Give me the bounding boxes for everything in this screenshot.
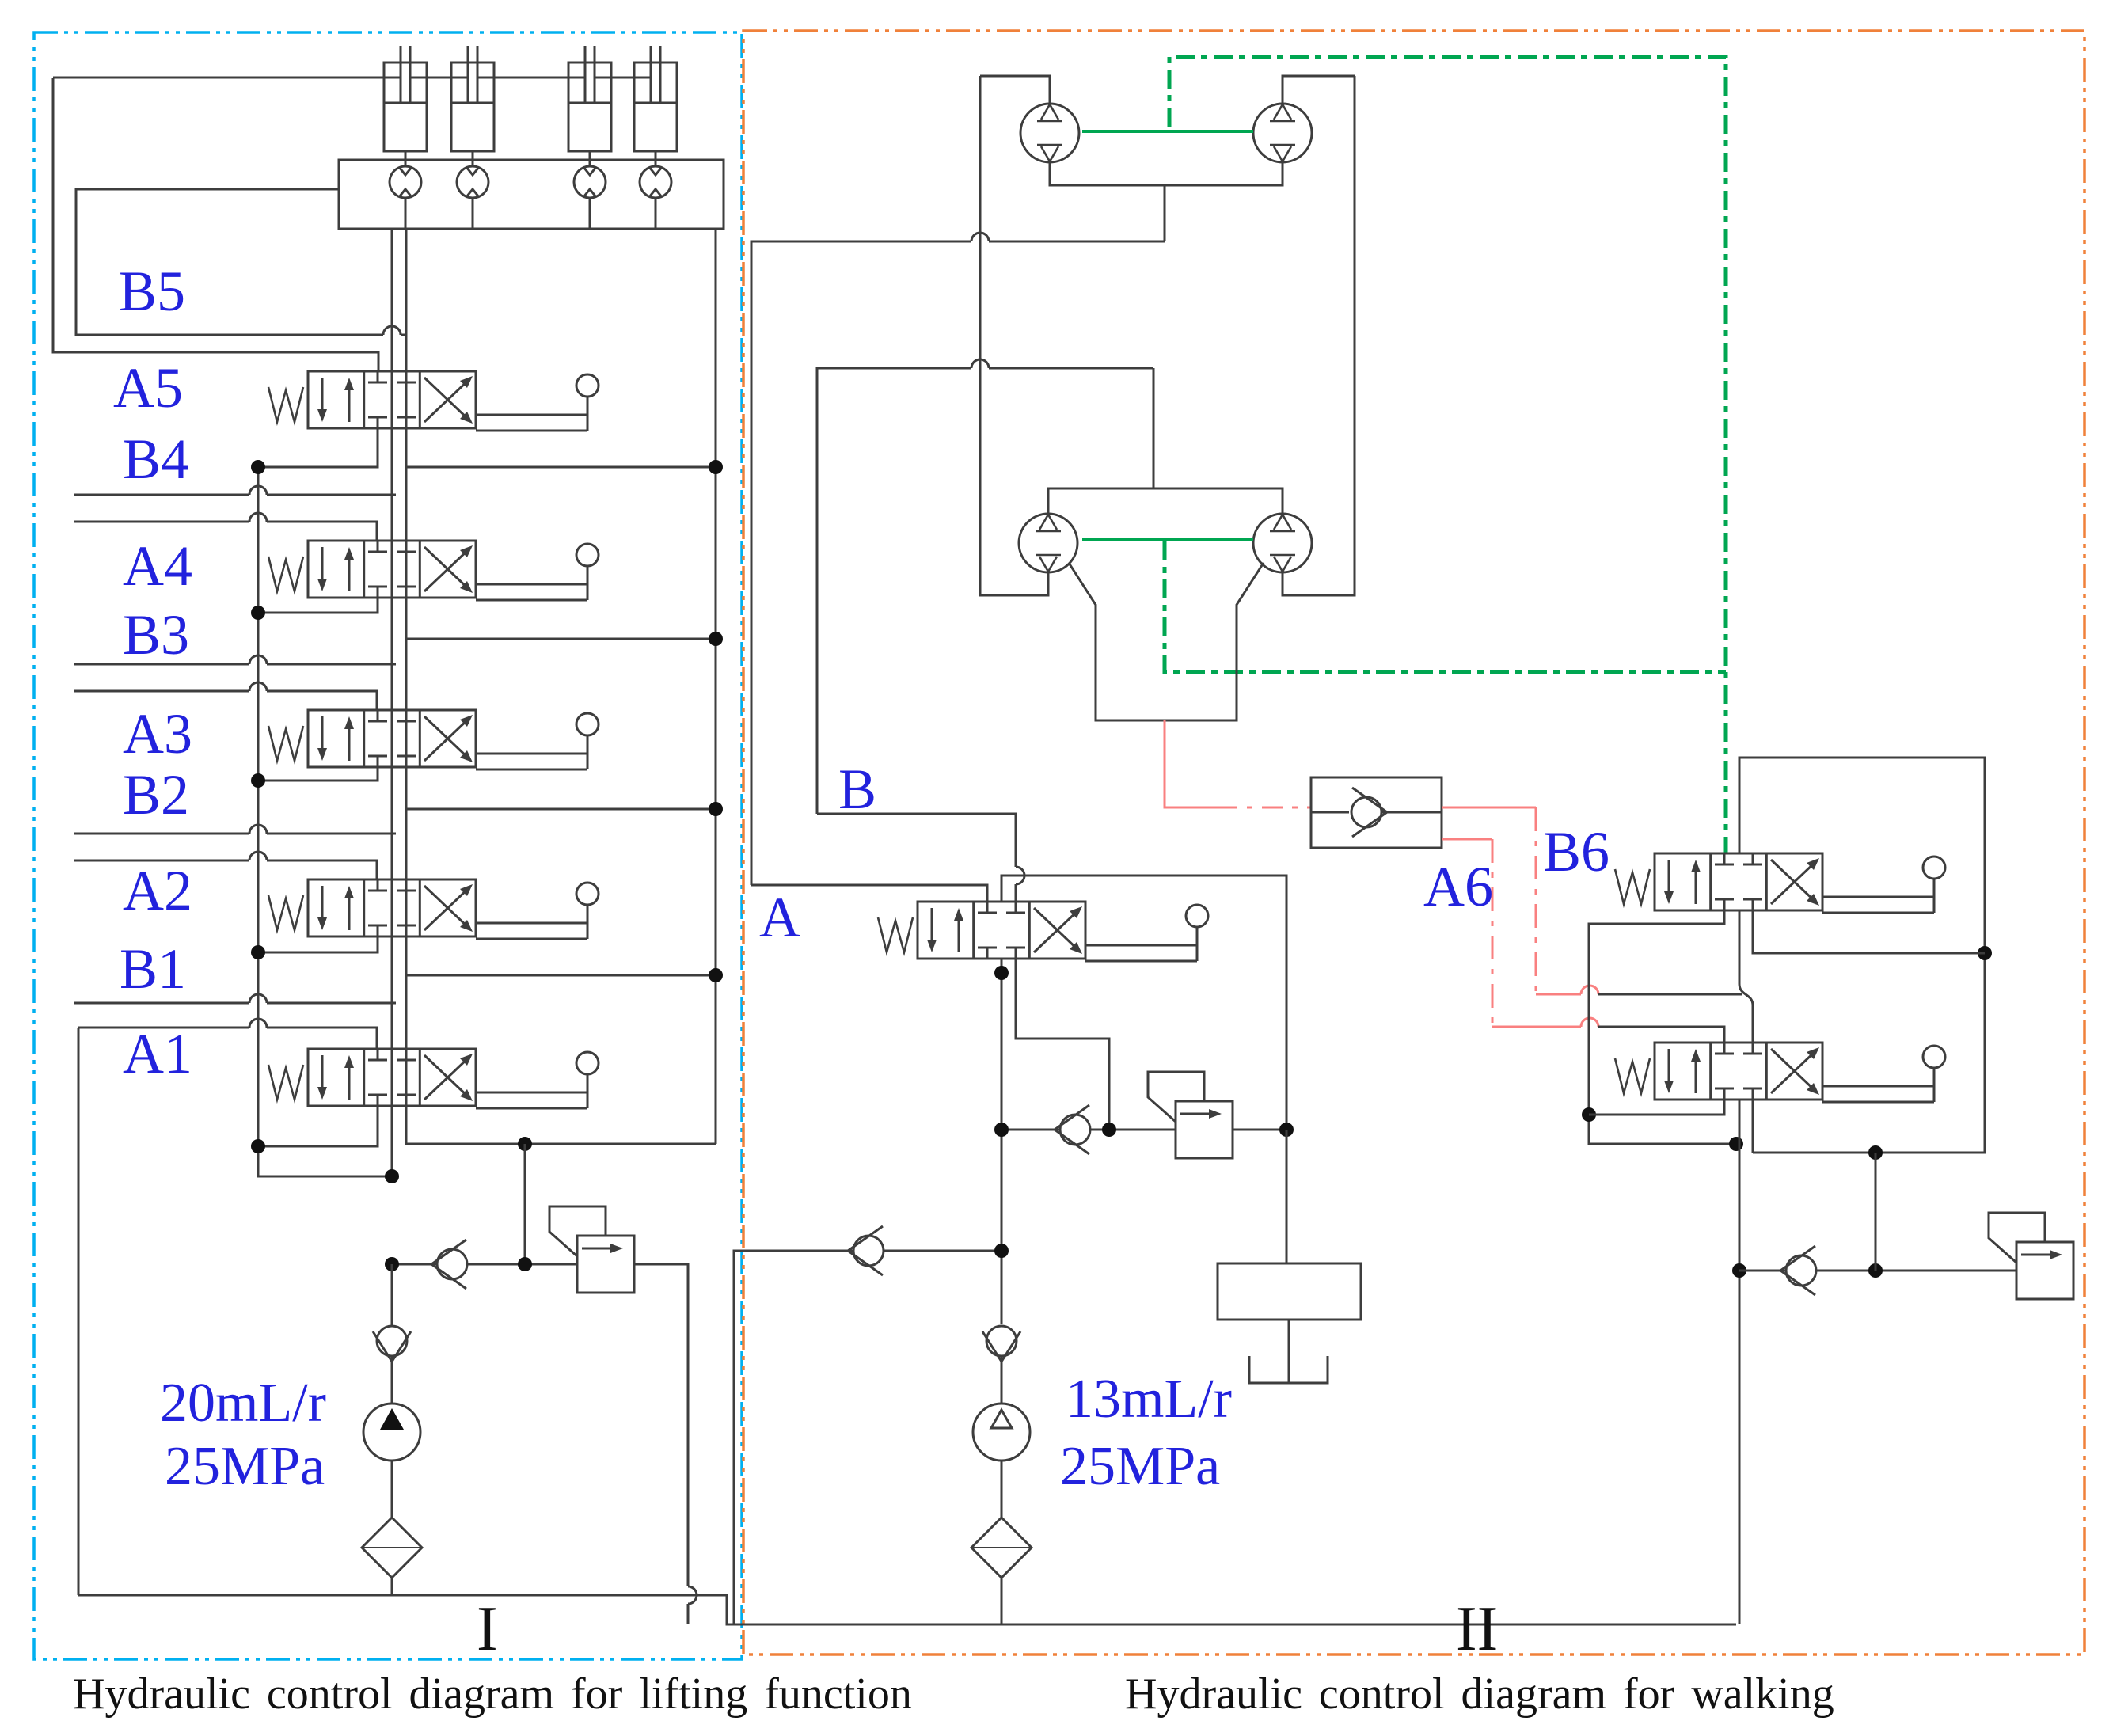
valve B6 (4/3 DCV) bbox=[1615, 853, 1945, 913]
svg-text:A3: A3 bbox=[123, 702, 192, 765]
svg-text:B5: B5 bbox=[119, 260, 185, 323]
svg-text:B2: B2 bbox=[123, 763, 189, 826]
junction A1 B-port bbox=[251, 1139, 265, 1153]
wire A2 B-port to rail bbox=[258, 936, 378, 952]
svg-text:A4: A4 bbox=[123, 534, 192, 598]
wire hop bbox=[249, 513, 267, 522]
wire A2 to return rail bbox=[406, 936, 716, 975]
wire A1 frame left side bbox=[78, 1028, 80, 1595]
wire B5 line bbox=[76, 189, 406, 371]
wire red supply dashed bbox=[1217, 807, 1311, 809]
junction B rail A3 bbox=[251, 773, 265, 788]
junction below valve bbox=[994, 966, 1009, 980]
junction loop right bbox=[1978, 946, 1992, 960]
wire red hop bbox=[1581, 986, 1598, 994]
wire block internal left bbox=[1311, 811, 1349, 814]
wire pump column bbox=[1001, 959, 1003, 1324]
check valve CV4 bbox=[848, 1226, 884, 1275]
cooler/tank block bbox=[1218, 1263, 1361, 1320]
svg-text:Hydraulic control diagram for: Hydraulic control diagram for lifting fu… bbox=[73, 1670, 912, 1719]
wire pair2 to B line bbox=[1153, 368, 1155, 488]
svg-text:13mL/r: 13mL/r bbox=[1066, 1369, 1232, 1430]
section I border (cyan dash-dot) bbox=[34, 32, 742, 1659]
wire red B6 to hop bbox=[1536, 993, 1581, 996]
wire CV7 to RV3 bbox=[1816, 1270, 2016, 1272]
wire divider to manifold bottom bbox=[589, 198, 591, 229]
manifold block bbox=[339, 160, 724, 229]
svg-text:B6: B6 bbox=[1543, 820, 1609, 883]
wire right return rail bbox=[715, 229, 717, 1144]
check valve CV7 bbox=[1780, 1246, 1816, 1295]
junction right loop bbox=[1279, 1123, 1294, 1137]
wire hop drain bbox=[688, 1586, 697, 1604]
wire A3 to return rail bbox=[406, 767, 716, 809]
wire left junction rail bbox=[257, 467, 260, 1146]
wire filter II to tank line bbox=[1001, 1578, 1003, 1624]
junction pilot drop bbox=[1868, 1263, 1883, 1278]
wire suction from section I bbox=[734, 1251, 853, 1624]
valve A6 (4/3 DCV) bbox=[1615, 1043, 1945, 1102]
valve A4 (4/3 DCV) bbox=[268, 541, 599, 600]
wire external B port line bbox=[74, 663, 396, 666]
svg-text:25MPa: 25MPa bbox=[165, 1436, 325, 1497]
wire return rail bottom bbox=[406, 1143, 716, 1145]
check valve CV5 (suction) bbox=[982, 1326, 1020, 1362]
relief valve RV3 bbox=[1989, 1213, 2073, 1299]
wire B line bbox=[817, 368, 1153, 814]
wire divider to manifold bottom bbox=[472, 198, 474, 229]
svg-text:II: II bbox=[1456, 1594, 1498, 1664]
wire A6 B-port bbox=[1589, 1100, 1724, 1115]
wire cylinder to divider bbox=[472, 151, 474, 166]
junction pump line bbox=[385, 1257, 399, 1271]
wire A1 B-port to rail bbox=[258, 1106, 378, 1146]
wire external A port line bbox=[78, 1028, 377, 1049]
relief valve RV1 bbox=[549, 1206, 634, 1293]
wire cylinder to divider bbox=[405, 151, 407, 166]
svg-text:I: I bbox=[477, 1594, 498, 1664]
wire A3 B-port to rail bbox=[258, 767, 378, 781]
section II border (orange dash-dot) bbox=[743, 31, 2084, 1654]
wire external A port line bbox=[74, 522, 377, 541]
wire external B port line bbox=[74, 833, 396, 835]
wire to CV7 bbox=[1739, 1270, 1786, 1272]
check valve CV6 (in block) bbox=[1351, 788, 1387, 837]
wire hop bbox=[249, 825, 267, 834]
wire red A6 horizontal bbox=[1442, 838, 1492, 841]
junction return rail A2 bbox=[709, 968, 723, 982]
filter F1 bbox=[362, 1518, 422, 1578]
check valve CV3 bbox=[1055, 1105, 1090, 1154]
svg-text:Hydraulic control diagram for: Hydraulic control diagram for walking bbox=[1125, 1670, 1834, 1719]
cylinder 2 bbox=[451, 46, 494, 151]
svg-text:B3: B3 bbox=[123, 603, 189, 667]
svg-text:B: B bbox=[838, 758, 876, 821]
junction left rail bbox=[1582, 1107, 1596, 1122]
wire external A port line bbox=[74, 691, 377, 710]
wire A5 work line from cylinders bbox=[53, 78, 378, 371]
wire green pilot lower bbox=[1165, 541, 1726, 672]
wire right pump? column bbox=[1739, 1100, 1741, 1624]
wire pump II to filter bbox=[1001, 1461, 1003, 1518]
wire check to relief bbox=[467, 1263, 577, 1266]
svg-text:A5: A5 bbox=[113, 356, 183, 420]
wire relief drain bbox=[634, 1264, 688, 1624]
wire to check CV3 bbox=[1001, 1129, 1060, 1131]
wire hop A over rail bbox=[971, 233, 989, 241]
wire tank line bbox=[78, 1595, 1736, 1624]
wire motor pair1 tops bbox=[980, 76, 1355, 104]
wire right motor rail bbox=[1283, 76, 1355, 595]
tank symbol bbox=[1249, 1356, 1328, 1383]
wire suction right part bbox=[884, 1250, 1001, 1252]
wire return drop bbox=[524, 1144, 526, 1264]
wire loop to check row bbox=[1875, 1153, 1877, 1271]
cylinder 1 bbox=[384, 46, 427, 151]
wire red B6 vertical dashed bbox=[1535, 807, 1537, 994]
wire hop bbox=[249, 852, 267, 860]
svg-text:B1: B1 bbox=[120, 937, 186, 1001]
wire relief out bbox=[1233, 1129, 1286, 1131]
wire motor pair1 bottoms bbox=[1050, 162, 1283, 185]
valve A2 (4/3 DCV) bbox=[268, 879, 599, 939]
pilot check block bbox=[1311, 777, 1442, 848]
junction P line bbox=[385, 1169, 399, 1183]
valve A5 (4/3 DCV) bbox=[268, 371, 599, 431]
svg-text:A: A bbox=[759, 886, 800, 949]
junction T return bbox=[1102, 1123, 1116, 1137]
wire A6 pilot gray bbox=[1598, 1027, 1724, 1043]
wire check to pump bbox=[391, 1356, 393, 1404]
junction center bbox=[1729, 1137, 1743, 1151]
junction loop bottom bbox=[1868, 1145, 1883, 1160]
wire hop bbox=[249, 655, 267, 664]
junction check row II right bbox=[1732, 1263, 1746, 1278]
wire rail to P junction bbox=[258, 1146, 392, 1176]
wire red A6 vertical dashed bbox=[1492, 839, 1494, 1027]
flow divider 1 bbox=[390, 166, 421, 198]
cylinder 3 bbox=[568, 46, 611, 151]
motor M1 bbox=[1020, 104, 1079, 162]
wire pair1 to A line bbox=[1164, 185, 1166, 241]
wire A line bbox=[751, 241, 1165, 885]
wire red hop2 bbox=[1581, 1018, 1598, 1027]
wire external B port line bbox=[74, 494, 396, 496]
wire green sync top bbox=[1082, 130, 1253, 133]
motor M4 bbox=[1253, 514, 1312, 572]
wire gearbox funnel bbox=[1069, 563, 1264, 720]
wire A4 B-port to rail bbox=[258, 598, 378, 613]
wire check to relief RV2 bbox=[1090, 1129, 1176, 1131]
wire cooler to tank bbox=[1288, 1320, 1290, 1383]
junction B rail A5 bbox=[251, 460, 265, 474]
wire B6 pilot gray bbox=[1598, 993, 1742, 996]
svg-text:25MPa: 25MPa bbox=[1060, 1436, 1220, 1497]
wire green sync bottom bbox=[1082, 538, 1253, 541]
wire P between right valves with jog bbox=[1739, 910, 1753, 1043]
wire B6 out to loop bbox=[1753, 910, 1985, 953]
wire red B6 horizontal bbox=[1442, 807, 1536, 809]
pump P2 13mL/r bbox=[973, 1404, 1030, 1461]
wire left motor rail bbox=[980, 76, 1048, 595]
junction pump column bbox=[994, 1123, 1009, 1137]
junction return drop bbox=[518, 1257, 532, 1271]
wire pump to filter bbox=[391, 1461, 393, 1518]
wire cylinder to divider bbox=[655, 151, 657, 166]
wire A5 B-port to rail bbox=[258, 428, 378, 467]
wire red supply solid bbox=[1165, 720, 1217, 807]
wire hop bbox=[249, 1019, 267, 1028]
wire P down to suction check bbox=[391, 1264, 393, 1326]
wire divider to manifold bottom bbox=[405, 198, 407, 229]
cylinder 4 bbox=[634, 46, 677, 151]
wire hop bbox=[249, 682, 267, 691]
pump P1 20mL/r bbox=[363, 1404, 420, 1461]
check valve CV1 bbox=[431, 1240, 467, 1289]
flow divider 3 bbox=[574, 166, 606, 198]
wire to cooler bbox=[1286, 1130, 1288, 1263]
svg-text:A2: A2 bbox=[123, 859, 192, 922]
wire hop bbox=[249, 486, 267, 495]
wire filter to tank line bbox=[391, 1578, 393, 1595]
wire right big loop bbox=[1739, 758, 1985, 1153]
flow divider 2 bbox=[457, 166, 488, 198]
wire A5 to return rail bbox=[406, 428, 716, 467]
wire rod linkage bbox=[53, 77, 651, 79]
svg-text:A6: A6 bbox=[1423, 855, 1493, 918]
junction return to check row bbox=[518, 1137, 532, 1151]
wire external B port line bbox=[74, 1002, 396, 1005]
valve V-center (4/3 DCV) bbox=[878, 902, 1208, 961]
junction suction bbox=[994, 1244, 1009, 1258]
wire check to pump II bbox=[1001, 1356, 1003, 1404]
wire A line bottom bbox=[751, 885, 987, 902]
motor M3 bbox=[1019, 514, 1077, 572]
motor M2 bbox=[1253, 104, 1312, 162]
junction B rail A2 bbox=[251, 945, 265, 959]
svg-text:A1: A1 bbox=[123, 1022, 192, 1085]
wire hop B over P bbox=[1016, 867, 1024, 884]
svg-text:20mL/r: 20mL/r bbox=[160, 1373, 326, 1434]
valve A1 (4/3 DCV) bbox=[268, 1049, 599, 1108]
junction return rail A5 bbox=[709, 460, 723, 474]
svg-text:B4: B4 bbox=[123, 427, 189, 491]
wire motor pair2 tops bbox=[1048, 488, 1283, 514]
junction return rail A4 bbox=[709, 632, 723, 646]
wire P to check valve bbox=[392, 1263, 437, 1266]
wire divider to manifold bottom bbox=[655, 198, 657, 229]
wire B line bottom bbox=[817, 814, 1016, 902]
wire cylinder to divider bbox=[589, 151, 591, 166]
wire hop B over rail bbox=[971, 359, 989, 368]
wire red A6 to hop bbox=[1492, 1026, 1581, 1028]
wire right valves left rail bbox=[1589, 910, 1736, 1144]
wire green pilot upper bbox=[1169, 57, 1726, 853]
check valve CV2 (suction) bbox=[373, 1326, 411, 1362]
flow divider 4 bbox=[640, 166, 671, 198]
wire A6 out to loop bbox=[1752, 1100, 1754, 1153]
junction B rail A4 bbox=[251, 606, 265, 620]
wire A4 to return rail bbox=[406, 598, 716, 639]
wire T through line bbox=[405, 229, 408, 1144]
wire T return to relief row bbox=[1016, 959, 1109, 1130]
wire hop B5 over P line bbox=[383, 326, 401, 335]
wire block internal right bbox=[1381, 811, 1442, 814]
junction return rail A3 bbox=[709, 802, 723, 816]
wire hop bbox=[249, 994, 267, 1003]
wire P supply loop bbox=[1001, 876, 1286, 1130]
relief valve RV2 bbox=[1148, 1072, 1233, 1158]
wire A1 to return rail bbox=[406, 1106, 716, 1144]
wire external A port line bbox=[74, 860, 377, 879]
filter F2 bbox=[971, 1518, 1032, 1578]
wire P through line bbox=[391, 229, 393, 1176]
valve A3 (4/3 DCV) bbox=[268, 710, 599, 769]
